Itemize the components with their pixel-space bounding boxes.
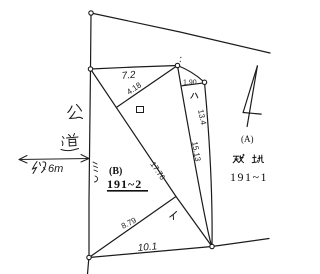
node dust marks above P3 [180, 57, 182, 62]
node P2 [88, 67, 92, 71]
wire leader line under 1.90 [182, 83, 205, 86]
svg-text:191~1: 191~1 [230, 170, 268, 184]
svg-text:10.1: 10.1 [137, 241, 157, 254]
label zanchi kanji zan hand-drawn [233, 154, 245, 163]
node P6 [87, 255, 91, 259]
svg-text:(B): (B) [109, 166, 122, 177]
label kanji public (kou) hand-drawn [68, 105, 83, 119]
svg-text:191~2: 191~2 [107, 177, 142, 191]
underline of 191-2 [107, 190, 148, 192]
wire baseline P6-P5 10.1 extended [89, 239, 269, 258]
node P5 [210, 244, 214, 248]
label kanji road (michi) hand-drawn [61, 134, 79, 151]
label parcel ro square [137, 107, 144, 113]
wire north boundary P2-P3 7.2 [91, 66, 178, 70]
wire line P3-P4 1.90 [178, 66, 205, 83]
label parcel ha katakana [191, 93, 198, 98]
label squiggle near west line [93, 162, 98, 182]
label approx 6m hand-drawn yaku + 6m [33, 162, 46, 174]
wire short line P3 to diagonal 4.18 [117, 66, 178, 108]
road width arrow 6m [19, 155, 89, 164]
wire diagonal P2-P7-P5 17.76 [91, 69, 213, 247]
node P4 [202, 80, 206, 84]
svg-text:7.2: 7.2 [121, 70, 136, 82]
wire line P6-P7 8.79 [89, 197, 176, 258]
wire top line P1 to right [91, 13, 270, 53]
svg-text:6m: 6m [48, 163, 63, 175]
label zanchi kanji chi hand-drawn [252, 155, 264, 163]
svg-text:(A): (A) [241, 134, 254, 144]
node P1 [89, 11, 93, 15]
wire line P3-P5 15.13 [178, 66, 213, 247]
node P3 [175, 63, 179, 67]
wire west boundary vertical line P1-P2-P6 [88, 15, 92, 274]
svg-text:1.90: 1.90 [183, 80, 197, 87]
wire line P4-P5 13.4 [205, 82, 213, 246]
north arrow [243, 66, 261, 127]
label parcel i katakana [170, 212, 177, 220]
